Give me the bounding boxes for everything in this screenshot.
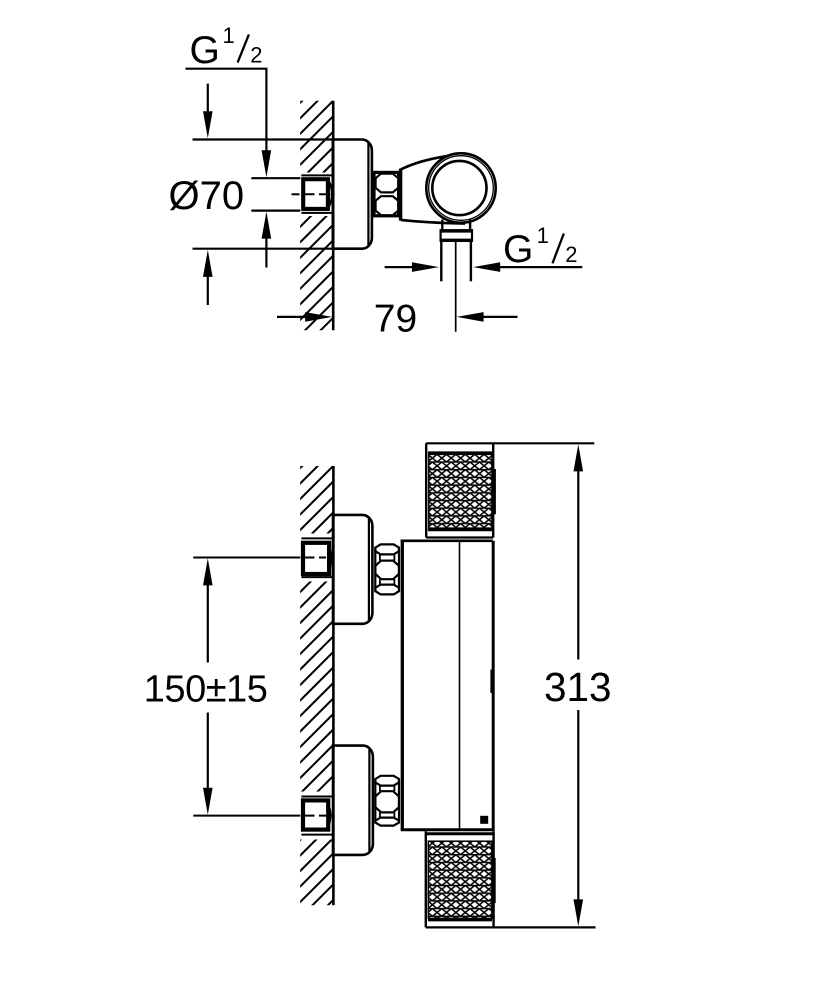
- svg-text:2: 2: [565, 242, 577, 267]
- svg-text:G: G: [190, 29, 220, 72]
- svg-text:Ø70: Ø70: [169, 174, 245, 218]
- svg-text:313: 313: [544, 664, 612, 710]
- svg-text:1: 1: [537, 223, 549, 248]
- svg-text:79: 79: [374, 297, 417, 340]
- svg-text:G: G: [503, 228, 533, 271]
- svg-text:150±15: 150±15: [144, 668, 268, 710]
- svg-text:2: 2: [250, 43, 262, 68]
- svg-text:1: 1: [223, 23, 235, 48]
